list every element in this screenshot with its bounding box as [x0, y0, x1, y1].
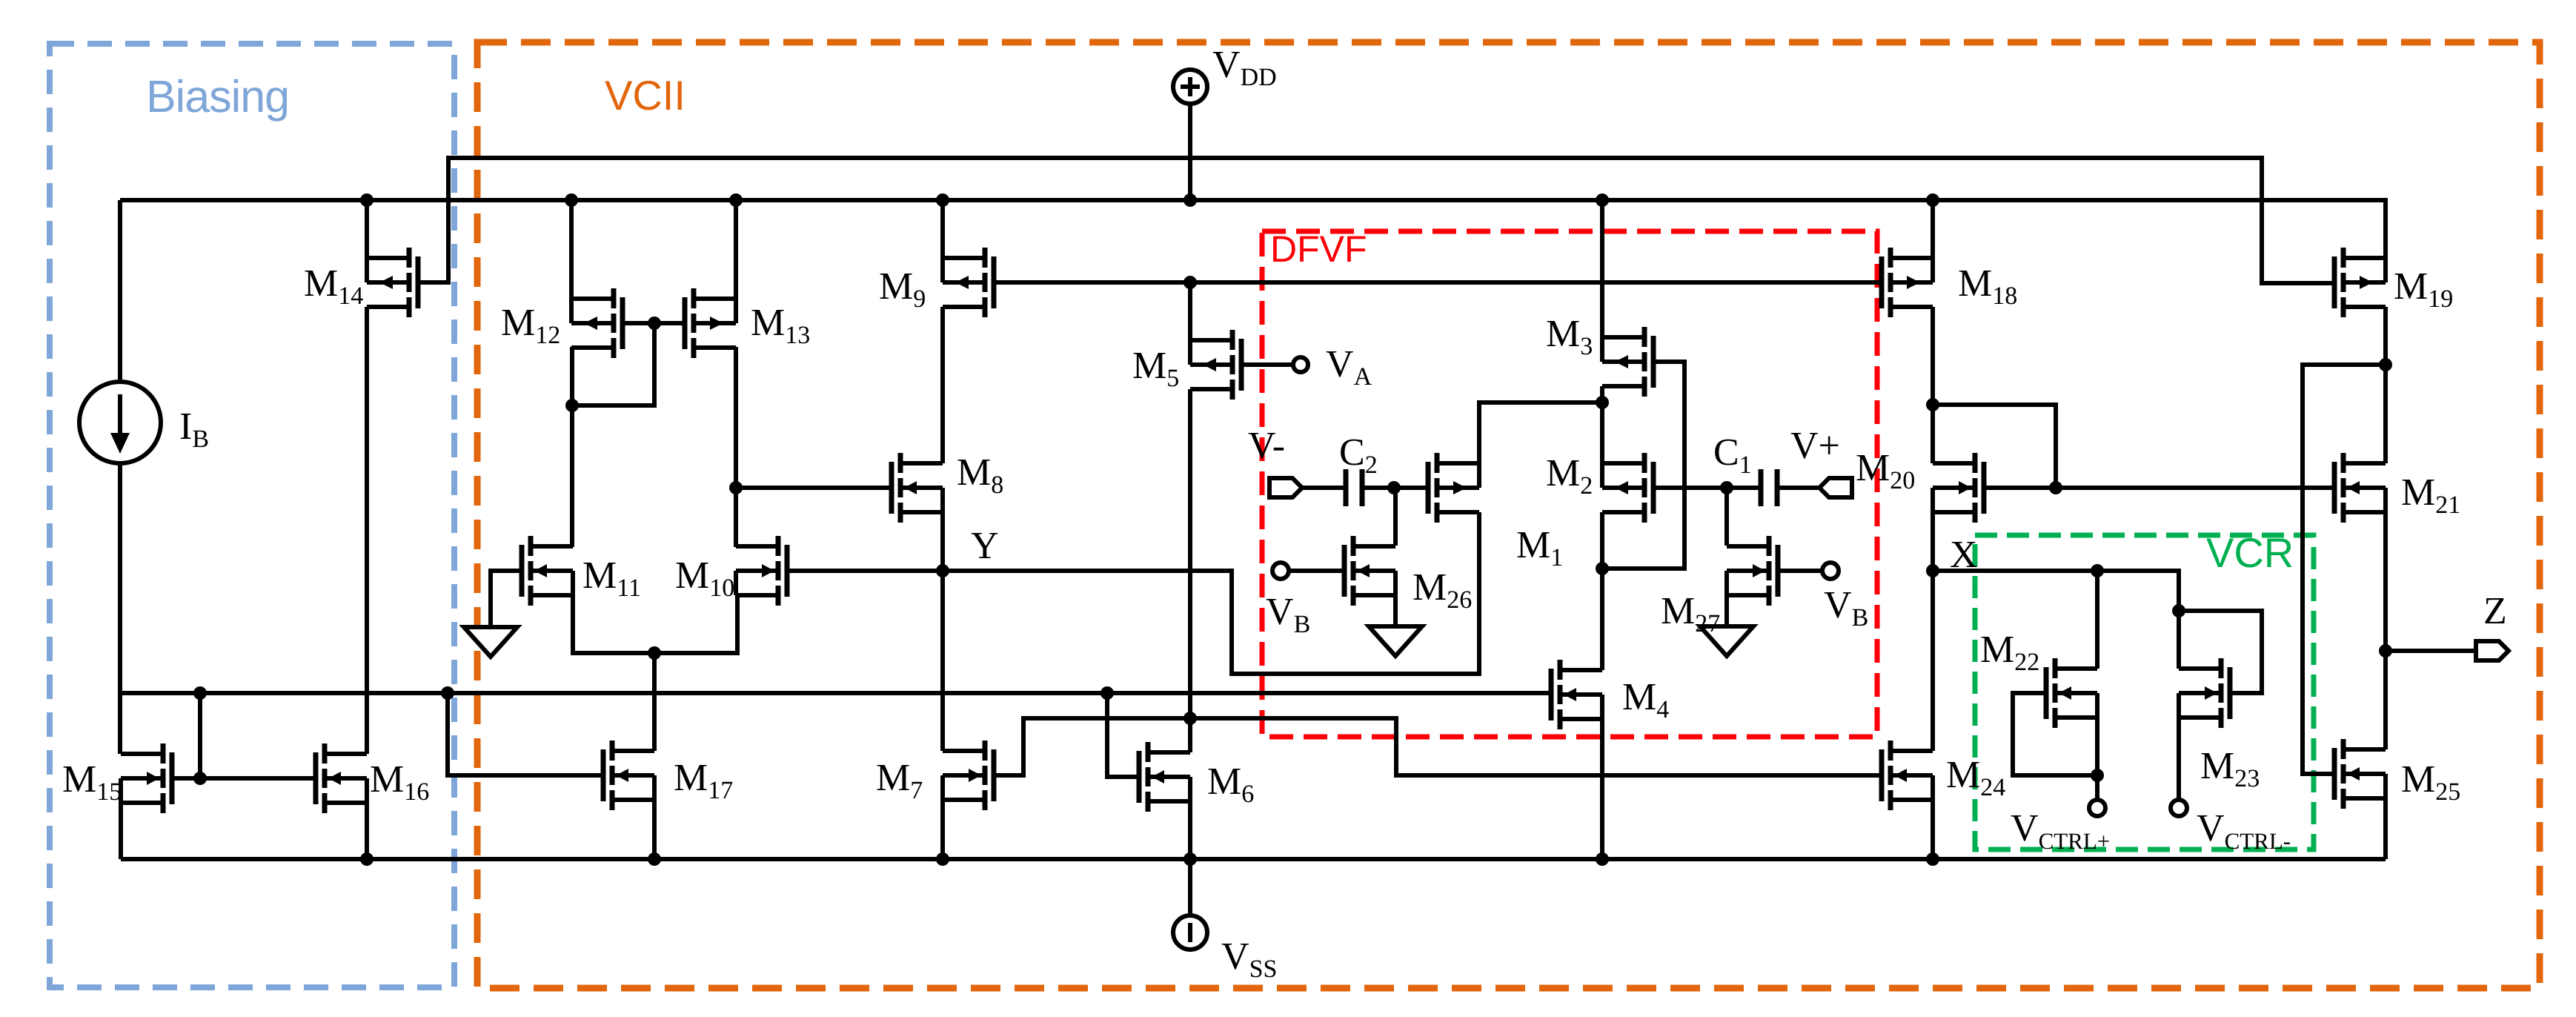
ground at M11 gate — [464, 627, 517, 657]
wire M3 drain to M2 source — [1600, 386, 1604, 463]
wire M27 source to ground — [1724, 595, 1729, 626]
wire M23 source down — [2177, 718, 2181, 800]
VDD supply symbol — [1173, 70, 1207, 200]
wire X to M24 drain — [1931, 571, 1935, 751]
wire M22 source down — [2095, 718, 2099, 800]
wire M4 source to VSS — [1600, 719, 1604, 859]
transistor M20 — [1933, 453, 1984, 523]
wire Y to M1 source jog — [943, 512, 1479, 674]
wire C1 to V+ — [1777, 486, 1819, 490]
VSS supply symbol — [1173, 859, 1207, 950]
capacitor C2 — [1346, 469, 1362, 506]
wire M14 source to VDD rail — [365, 200, 369, 258]
port V+ tag — [1819, 478, 1852, 497]
wire IB to M15 drain — [118, 463, 122, 754]
node M22 source / VCTRL+ — [2091, 769, 2104, 782]
wire M20 source to X — [1931, 512, 1935, 571]
VCR region box — [1975, 535, 2314, 849]
wire M24 source to VSS — [1931, 800, 1935, 859]
current source IB — [79, 382, 161, 463]
wire VDD rail — [120, 200, 2386, 258]
wire node to VCR / M25 gate — [2303, 365, 2386, 774]
transistor M3 — [1602, 327, 1653, 397]
wire M17 gate branch — [448, 693, 603, 775]
transistor M18 — [1882, 248, 1933, 317]
wire M22 gate loop — [2013, 693, 2097, 775]
wire M13 drain / M10 drain — [734, 347, 738, 547]
transistor M5 — [1190, 330, 1241, 400]
DFVF region box — [1262, 231, 1877, 737]
wire M5 drain to M6 drain — [1188, 389, 1192, 752]
ground at M27 — [1700, 626, 1753, 656]
transistor M4 — [1551, 660, 1602, 729]
wire Y node to M7 drain — [940, 571, 945, 751]
node M18 drain to gate wire — [2049, 481, 2062, 494]
wire M23 drain up — [2177, 611, 2181, 669]
wire M3 gate to M2 drain node — [1602, 362, 1684, 569]
node M11/M10 tail — [648, 646, 661, 660]
wire gate node to M12 drain — [572, 323, 654, 405]
wire M2 drain down — [1600, 512, 1604, 569]
node M23 drain — [2172, 604, 2185, 617]
wire M6 gate branch — [1107, 693, 1139, 777]
wire M3 source to VDD — [1600, 200, 1604, 337]
transistor M24 — [1882, 741, 1933, 810]
port VB left — [1272, 563, 1289, 579]
transistor M19 — [2334, 248, 2386, 317]
VCII region box — [477, 42, 2540, 988]
wire M6 source to VSS — [1188, 801, 1192, 859]
wire M2 gate to C1 — [1653, 486, 1761, 490]
wire M12 source to VDD — [569, 200, 574, 299]
node M12/M13 gates — [648, 317, 661, 330]
wire tail to M17 drain — [652, 653, 657, 751]
svg-text:Y: Y — [971, 525, 999, 567]
wire V- to C2 — [1302, 486, 1345, 490]
node Y — [936, 564, 949, 577]
port VCTRL+ — [2089, 800, 2105, 816]
node bias rail taps — [193, 686, 1114, 700]
ground at M26 — [1369, 626, 1422, 656]
wire M7/M24 gate wire — [994, 718, 1882, 775]
node Z — [2379, 644, 2392, 657]
node M15/M16 gates — [193, 772, 207, 785]
transistor M27 — [1727, 536, 1778, 606]
transistor M15 — [121, 743, 172, 813]
transistor M10 — [736, 536, 787, 606]
Biasing region box — [50, 44, 454, 987]
node VSS rail taps — [360, 852, 1939, 866]
wire M8 gate lead — [736, 486, 892, 490]
wire M26 drain up — [1393, 488, 1398, 546]
svg-text:Biasing: Biasing — [146, 71, 289, 122]
node X — [1926, 564, 1939, 577]
node M2 drain / M3 gate / M4 drain — [1596, 562, 1609, 575]
transistor M16 — [316, 743, 367, 813]
wire X wire — [1933, 571, 2179, 611]
node C2 / M1 gate / M26 drain — [1387, 481, 1401, 494]
wire Z lead — [2386, 649, 2475, 653]
wire M12 drain / M11 drain — [570, 347, 574, 547]
wire M21 drain — [2383, 365, 2388, 463]
transistor M7 — [943, 741, 994, 810]
wire M14 drain to M16 drain — [365, 307, 369, 754]
wire top gate rail (M14/M19 gates) — [418, 158, 2334, 283]
wire M1 drain — [1479, 403, 1602, 463]
wire M11 source to tail — [573, 595, 654, 653]
wire M18 source to VDD — [1931, 200, 1935, 258]
port Z tag — [2476, 641, 2509, 660]
wire M5 source tap — [1188, 282, 1192, 340]
wire M12-M13 gate lead — [623, 321, 685, 325]
port V- tag — [1269, 478, 1302, 497]
svg-text:Z: Z — [2483, 590, 2507, 632]
node M22 drain on X — [2091, 564, 2104, 577]
transistor M14 — [367, 248, 418, 317]
wire M15 gate lead — [172, 776, 200, 781]
transistor M23 — [2179, 658, 2230, 728]
wire M5 gate lead — [1241, 362, 1293, 367]
transistor M26 — [1344, 536, 1395, 606]
port VCTRL- — [2171, 800, 2187, 816]
svg-text:VCR: VCR — [2206, 529, 2294, 576]
wire M26 source to ground — [1393, 595, 1398, 626]
transistor M9 — [943, 248, 994, 317]
svg-text:X: X — [1950, 534, 1978, 576]
svg-text:VCII: VCII — [605, 72, 686, 119]
wire M9-M18 gate wire — [994, 280, 1882, 285]
wire M25 source to VSS — [2383, 798, 2388, 859]
transistor M1 — [1428, 453, 1479, 523]
wire M21 source to Z to M25 — [2383, 512, 2388, 749]
wire M9 drain to M8 drain — [940, 307, 945, 463]
wire M23 gate loop — [2179, 611, 2262, 693]
node M1 drain — [1596, 396, 1609, 409]
wire M10 source to tail — [654, 595, 737, 653]
wire M7 source to VSS — [940, 800, 945, 859]
capacitor C1 — [1761, 469, 1777, 506]
wire M13 source to VDD — [734, 200, 738, 299]
transistor M12 — [571, 288, 623, 358]
node VDD rail taps — [360, 193, 1939, 207]
wire M11 gate to ground — [491, 571, 522, 627]
transistor M8 — [892, 453, 943, 523]
wire M9 source to VDD — [940, 200, 945, 258]
transistor M13 — [685, 288, 736, 358]
node M5 source on gate wire — [1184, 276, 1197, 289]
transistor M22 — [2046, 658, 2097, 728]
svg-text:DFVF: DFVF — [1270, 228, 1367, 270]
wire M19 drain — [2383, 307, 2388, 365]
wire C2 to M1 gate — [1362, 486, 1428, 490]
node M18 drain — [1926, 398, 1939, 411]
port VA — [1293, 357, 1308, 372]
svg-text:V+: V+ — [1790, 425, 1840, 467]
wire bias rail VB1 (M15-M17,M6,M4 gates) — [120, 691, 1551, 695]
wire M27 gate lead — [1778, 569, 1822, 573]
wire VSS rail — [121, 857, 2386, 861]
node M19/M21 drains — [2379, 358, 2392, 371]
wire M26 gate lead — [1289, 569, 1344, 573]
port VB right — [1822, 563, 1839, 579]
transistor M6 — [1139, 742, 1190, 812]
svg-text:V-: V- — [1248, 425, 1285, 467]
wire M10 gate to Y — [787, 569, 943, 573]
transistor M11 — [522, 536, 573, 606]
node M12 drain — [565, 399, 579, 412]
wire M8 source to Y — [940, 512, 945, 571]
wire M15 source to VSS — [119, 803, 123, 859]
transistor M21 — [2334, 453, 2386, 523]
wire M27 drain up — [1724, 488, 1729, 546]
wire M20-M21 gate wire — [1984, 486, 2334, 490]
wire M18 drain to M20 drain — [1931, 307, 1935, 463]
wire M22 drain up — [2095, 571, 2099, 669]
transistor M17 — [603, 741, 654, 810]
node M5/M6 drains / M7 gate — [1184, 712, 1197, 725]
wire IB top — [118, 200, 122, 382]
transistor M25 — [2334, 739, 2386, 809]
node C1 / M2 gate / M27 drain — [1720, 481, 1733, 494]
transistor M2 — [1602, 453, 1653, 523]
wire M18 drain branch to gate wire — [1933, 405, 2056, 488]
node M13 drain / M8 gate — [729, 481, 743, 494]
wire M16 source to VSS — [365, 803, 369, 859]
wire M15/M16 gate node up — [198, 693, 202, 778]
wire M17 source to VSS — [652, 800, 657, 859]
wire M2/M4 node to M4 drain — [1600, 569, 1604, 670]
wire M16 gate lead — [200, 776, 316, 781]
